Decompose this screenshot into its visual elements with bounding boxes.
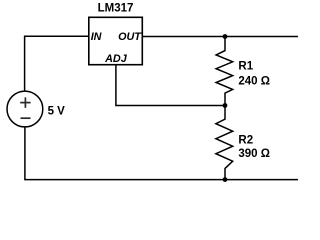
junction node at OUT/R1	[223, 34, 228, 39]
wire OUT net: LM317 OUT pin to right	[142, 36, 298, 38]
svg-text:240 Ω: 240 Ω	[238, 75, 270, 87]
svg-text:ADJ: ADJ	[104, 53, 128, 65]
resistor R2	[216, 106, 233, 180]
svg-text:IN: IN	[91, 31, 102, 43]
wire ADJ net: LM317 ADJ pin down and right to R1/R2 node	[116, 65, 225, 106]
svg-text:LM317: LM317	[98, 2, 134, 14]
junction node at R1/R2/ADJ	[223, 103, 228, 108]
wire bottom rail	[24, 179, 298, 181]
wire IN net: source top to LM317 IN pin	[25, 36, 89, 91]
minus sign of V1	[21, 117, 31, 119]
resistor R1	[216, 37, 233, 106]
label R1 value	[238, 61, 270, 88]
svg-text:R2: R2	[238, 134, 253, 146]
junction node at R2/bottom rail	[223, 177, 228, 182]
op-amp style box: regulator U1 LM317	[89, 17, 143, 64]
svg-text:R1: R1	[238, 61, 253, 73]
voltage source V1 circle	[7, 91, 43, 127]
svg-text:5 V: 5 V	[48, 105, 66, 117]
label R2 value	[238, 134, 270, 160]
svg-text:OUT: OUT	[118, 31, 142, 43]
plus sign of V1	[20, 97, 30, 107]
svg-text:390 Ω: 390 Ω	[238, 148, 270, 160]
wire: source bottom to bottom rail	[24, 127, 26, 180]
